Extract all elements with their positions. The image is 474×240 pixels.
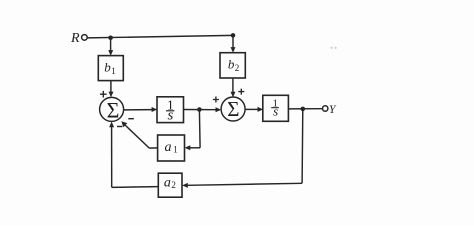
plus sign at S2 left input (213, 97, 219, 103)
block b1 (98, 56, 123, 81)
svg-text:Y: Y (329, 104, 337, 116)
svg-text:2: 2 (235, 63, 240, 73)
svg-text:s: s (273, 104, 278, 119)
arrowhead into a1 (185, 145, 191, 150)
plus sign at S1 top input (100, 91, 107, 98)
summing junction S1 (100, 97, 124, 121)
wire: across to a2 right side (187, 183, 302, 185)
arrowhead into b2 (231, 47, 236, 53)
wire: b2 down to summer S2 (232, 78, 234, 93)
arrowhead into b1 (108, 50, 113, 56)
junction above b1 (108, 36, 113, 41)
scan smudges (faint) (331, 47, 337, 49)
arrowhead into S2 left (216, 107, 222, 112)
wire: a1 diagonal to S1 (125, 125, 149, 148)
svg-text:R: R (70, 31, 80, 46)
junction after I1 (node to a1) (197, 107, 202, 112)
junction above b2 (231, 33, 236, 38)
wire: junction down into b1 (110, 38, 112, 51)
wire: into a1 right side (190, 147, 201, 149)
arrowhead into I1 (152, 107, 158, 112)
wire: R to junction above b2 (top rail) (88, 35, 234, 38)
arrowhead into S1 lower-right (121, 121, 127, 127)
svg-text:Σ: Σ (107, 98, 120, 123)
svg-text:a: a (165, 140, 172, 155)
wire: junction down into b2 (232, 35, 234, 48)
arrowhead into I2 (258, 107, 264, 112)
block b2 (220, 53, 245, 78)
block a2 (158, 173, 182, 197)
output terminal (open circle) (323, 106, 328, 111)
arrowhead into S2 top (231, 92, 236, 98)
plus sign at S2 top input (238, 89, 244, 95)
arrowhead into S1 top (109, 92, 114, 98)
wire: I1 output to summer S2 (184, 109, 216, 111)
wire: node after I2 down to a2 (301, 109, 304, 183)
wire: a1 output stub (149, 147, 157, 149)
wire: node after I1 down to a1 (198, 110, 201, 148)
wire: S2 output to integrator I2 (245, 108, 258, 110)
svg-text:s: s (167, 108, 173, 124)
wire: left rail up to S1 bottom (111, 126, 113, 187)
arrowhead into S1 bottom (109, 122, 114, 128)
svg-text:1: 1 (111, 66, 116, 76)
wire: I2 output to output terminal (288, 108, 322, 110)
summing junction S2 (221, 97, 245, 121)
integrator block I1 (1/s) (157, 97, 184, 123)
wire: b1 down to summer S1 (110, 81, 112, 93)
minus sign at S1 bottom input (117, 126, 122, 128)
svg-text:a: a (164, 175, 171, 190)
minus sign at S1 diagonal input (128, 118, 134, 120)
block a1 (158, 135, 185, 161)
svg-text:1: 1 (173, 145, 178, 155)
junction after I2 (node to a2) (301, 107, 306, 112)
svg-text:2: 2 (171, 180, 176, 190)
integrator block I2 (1/s) (263, 95, 289, 121)
arrowhead into a2 (182, 183, 188, 188)
wire: S1 output to integrator I1 (124, 109, 153, 111)
input terminal (open circle) (82, 35, 88, 41)
wire: a2 output to left rail (112, 186, 159, 189)
svg-text:Σ: Σ (227, 97, 239, 121)
